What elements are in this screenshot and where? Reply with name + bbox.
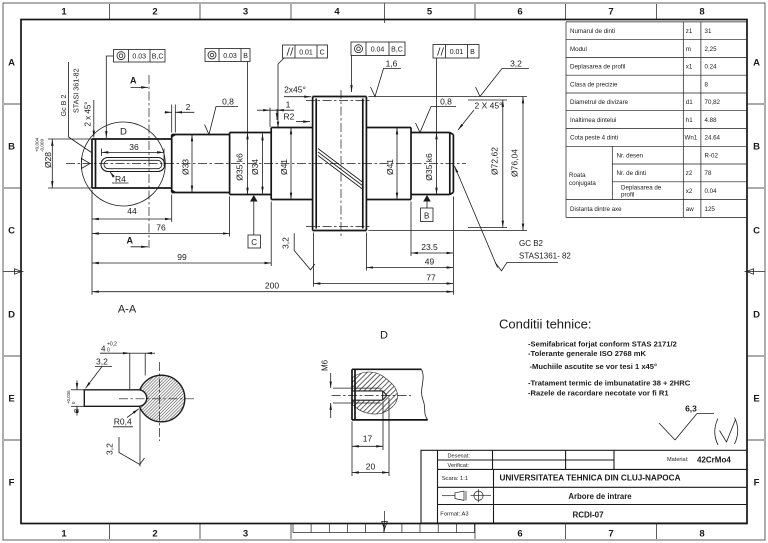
- svg-text:Ø28: Ø28: [43, 152, 53, 168]
- svg-text:A: A: [130, 76, 137, 86]
- FCF2 texts: [223, 53, 248, 60]
- seg o33 top: [172, 134, 230, 136]
- table row 4: Clasa de precizie 8: [570, 81, 709, 88]
- svg-text:Deplasarea de profil: Deplasarea de profil: [570, 64, 625, 71]
- chamfer 2X45 right leader: [458, 110, 474, 130]
- centering mark right: [745, 269, 765, 274]
- svg-text:1: 1: [61, 529, 67, 540]
- dim o33 line: [191, 135, 193, 193]
- svg-text:-Tratament termic de imbunatat: -Tratament termic de imbunatatire 38 + 2…: [528, 378, 691, 387]
- keyway slot inner: [104, 160, 162, 168]
- R4 underline hook: [112, 182, 129, 184]
- datum C triangle: [250, 195, 258, 202]
- svg-text:3: 3: [243, 529, 248, 540]
- FCF4 texts: [371, 46, 403, 53]
- svg-text:Conditii tehnice:: Conditii tehnice:: [499, 317, 592, 332]
- right end face: [452, 135, 454, 193]
- svg-text:0: 0: [107, 347, 110, 353]
- shoulder o33/o35k6: [229, 133, 231, 195]
- roughness 3,2 A-A top leader: [86, 367, 103, 389]
- keyway slot (white): [84, 390, 146, 407]
- dim o41 right text (rotated): [385, 159, 395, 175]
- helix direction marks: [318, 149, 363, 190]
- roughness 0,8 right: [416, 107, 457, 133]
- ext line x383 (17): [382, 402, 384, 451]
- svg-text:31: 31: [705, 28, 712, 35]
- svg-text:aw: aw: [686, 206, 694, 213]
- dim 2 line with facing arrows: [165, 111, 195, 113]
- dim o28 text: [43, 152, 53, 168]
- svg-text:2x45°: 2x45°: [284, 85, 306, 95]
- left end face: [91, 139, 93, 188]
- seg o41 right bottom: [366, 199, 411, 201]
- groove dim 1 mid segment: [270, 109, 277, 111]
- svg-text:D: D: [8, 310, 15, 321]
- svg-text:7: 7: [608, 529, 613, 540]
- svg-text:42CrMo4: 42CrMo4: [697, 456, 731, 465]
- ext line x313.5 for 77: [313, 233, 315, 287]
- svg-text:3,2: 3,2: [510, 59, 522, 69]
- svg-text:3,2: 3,2: [105, 443, 115, 455]
- svg-text:x2: x2: [686, 188, 693, 195]
- table row 9: Nr. de dinti z2 78: [617, 170, 712, 177]
- svg-text:B,C: B,C: [391, 46, 403, 53]
- table row 7: Cota peste 4 dinti Wn1 24.64: [570, 135, 721, 142]
- svg-text:99: 99: [177, 252, 187, 262]
- table merged cell: Roata conjugata: [569, 172, 596, 187]
- dim o35k6 left text (rotated): [235, 153, 245, 181]
- svg-text:Verificat:: Verificat:: [448, 463, 470, 469]
- A-A vertical centerline: [159, 362, 161, 441]
- centering mark left: [4, 269, 24, 274]
- dim o35k6 right line: [436, 133, 438, 195]
- keyway edge extension line down: [139, 408, 141, 467]
- svg-text:0.01: 0.01: [450, 49, 464, 56]
- general roughness 6,3 symbol: [659, 414, 714, 441]
- ext line x229.6 for 76: [229, 197, 231, 237]
- svg-text:-Tolerante generale ISO 2768 m: -Tolerante generale ISO 2768 mK: [528, 349, 647, 358]
- table row 2: Modul m 2,25: [570, 46, 717, 53]
- svg-text:125: 125: [705, 206, 716, 213]
- ext line x352 down: [351, 422, 353, 477]
- svg-text:M6: M6: [321, 359, 330, 371]
- svg-text:C: C: [251, 238, 257, 247]
- section plane A-A centerline: [148, 75, 150, 248]
- svg-text:A: A: [127, 236, 134, 246]
- svg-text:C: C: [753, 226, 760, 237]
- svg-text:6,3: 6,3: [685, 404, 697, 414]
- svg-text:8: 8: [699, 7, 704, 18]
- dim 17 line: [352, 445, 383, 447]
- dim 36 line: [102, 151, 165, 153]
- zone column numbers bottom: [61, 529, 704, 540]
- dim o28 tolerance text: [35, 137, 45, 152]
- roughness 3,2 near C (rotated): [281, 237, 291, 249]
- svg-text:RCDI-07: RCDI-07: [572, 511, 604, 520]
- keyway slot outer: [101, 158, 165, 172]
- svg-text:4.88: 4.88: [705, 117, 718, 124]
- svg-text:3: 3: [243, 7, 248, 18]
- GcB2 leader: [69, 62, 92, 153]
- dim o72.62 ext lines: [468, 100, 507, 228]
- svg-text:m: m: [686, 46, 691, 53]
- zone row letters left: [8, 58, 15, 489]
- roughness 3,2 A-A bottom symbol: [119, 437, 145, 465]
- svg-text:24.64: 24.64: [705, 135, 721, 142]
- svg-text:B: B: [8, 142, 15, 153]
- svg-text:3,2: 3,2: [96, 356, 108, 366]
- svg-text:Material:: Material:: [667, 457, 689, 463]
- shaft cross-section hatched circle: [138, 375, 185, 422]
- FCF1 texts: [132, 53, 163, 60]
- FCF4 leader: [351, 56, 353, 93]
- FCF1 symbol concentricity: [117, 52, 125, 60]
- dim 23.5 line: [411, 252, 453, 254]
- FCF5 texts: [450, 49, 475, 56]
- M6 ext lines: [333, 388, 352, 403]
- chamfer text 2x45 left (rotated): [84, 102, 93, 127]
- svg-text:C: C: [8, 226, 15, 237]
- svg-text:0.04: 0.04: [705, 188, 718, 195]
- FCF4 symbol concentricity: [355, 45, 363, 53]
- right end chamfer line: [449, 133, 451, 195]
- centering mark bottom: [382, 511, 388, 532]
- svg-text:8: 8: [705, 81, 709, 88]
- svg-text:GC B2: GC B2: [519, 239, 544, 248]
- svg-text:z1: z1: [686, 28, 693, 35]
- svg-text:200: 200: [265, 281, 279, 291]
- svg-text:Modul: Modul: [570, 46, 587, 53]
- dim o28 extension lines: [48, 139, 92, 188]
- svg-text:E: E: [753, 394, 759, 405]
- chamfer leader 2x45 left: [93, 100, 95, 138]
- leader R4: [110, 172, 114, 177]
- left end chamfer line: [95, 139, 97, 188]
- FCF2 frame: [205, 49, 250, 62]
- seg o41 right top: [366, 127, 411, 129]
- dim o72.62 text (rotated): [490, 147, 500, 175]
- ext line x389 (20): [388, 398, 390, 476]
- FCF2 leader: [247, 62, 249, 133]
- svg-text:B: B: [753, 142, 760, 153]
- gear mid centerline: [340, 90, 342, 238]
- R0,4 underline: [113, 426, 133, 428]
- dim 76 line: [92, 233, 230, 235]
- dim o35k6 right text (rotated): [424, 153, 434, 181]
- svg-text:-Muchiile ascutite se vor tesi: -Muchiile ascutite se vor tesi 1 x45°: [530, 362, 658, 371]
- FCF3 symbol parallelism: [287, 48, 293, 56]
- svg-text:77: 77: [426, 273, 436, 283]
- svg-text:8: 8: [699, 529, 704, 540]
- section arrow A bottom: [131, 246, 149, 248]
- svg-text:0.04: 0.04: [371, 46, 385, 53]
- svg-text:17: 17: [363, 433, 373, 443]
- dim o76.04 line: [522, 97, 524, 231]
- svg-text:-0,009: -0,009: [40, 139, 45, 152]
- datum C box: [248, 235, 261, 248]
- svg-text:STASI 361-82: STASI 361-82: [72, 68, 81, 113]
- dim o76.04 ext lines: [368, 97, 527, 231]
- ext line x411 for 23.5: [410, 202, 412, 257]
- detail circle D: [81, 122, 165, 206]
- dim 44 line: [92, 218, 172, 220]
- FCF3 frame: [283, 45, 328, 58]
- svg-text:0.03: 0.03: [132, 53, 146, 60]
- svg-text:Inaltimea dintelui: Inaltimea dintelui: [570, 117, 616, 124]
- svg-text:Ø72,62: Ø72,62: [490, 147, 500, 175]
- svg-text:6: 6: [517, 7, 522, 18]
- parenthesized roughness symbol: [715, 418, 738, 446]
- svg-text:6: 6: [517, 529, 522, 540]
- seg o35k6 right bottom: [411, 194, 450, 196]
- svg-text:Nr. de dinti: Nr. de dinti: [617, 170, 647, 177]
- gear right face: [365, 97, 367, 231]
- svg-text:78: 78: [705, 170, 712, 177]
- roughness 3,2 right: [476, 69, 530, 97]
- gear top: [313, 96, 367, 98]
- svg-text:2: 2: [152, 529, 157, 540]
- svg-text:B: B: [243, 53, 248, 60]
- gear left face: [312, 97, 314, 231]
- svg-text:1,6: 1,6: [386, 59, 398, 69]
- groove dim 1 ext lines: [270, 108, 277, 128]
- svg-text:70,82: 70,82: [705, 99, 721, 106]
- table row 3: Deplasarea de profil x1 0.24: [570, 64, 717, 71]
- break line wavy: [421, 369, 427, 420]
- roughness 3,2 A-A bottom text (rotated): [105, 443, 115, 455]
- table row 11: Distanta dintre axe aw 125: [570, 206, 715, 213]
- dim o35k6 left line: [247, 133, 249, 195]
- svg-text:2: 2: [152, 7, 157, 18]
- gear bottom: [313, 230, 367, 232]
- gear left chamfer line: [315, 99, 317, 229]
- svg-text:Ø35 k6: Ø35 k6: [235, 153, 245, 181]
- svg-text:44: 44: [127, 206, 137, 216]
- FCF5 symbol parallelism: [438, 48, 444, 56]
- title block frame: [421, 450, 747, 523]
- dim 2 ext lines: [172, 105, 176, 133]
- o33 chamfer bottom: [172, 190, 176, 192]
- dim o34 text (rotated): [250, 159, 260, 175]
- svg-text:Roata: Roata: [569, 172, 586, 179]
- zone ticks right: [747, 104, 764, 440]
- roughness 3,2 near C symbol: [294, 233, 315, 269]
- svg-text:4: 4: [101, 344, 106, 353]
- svg-text:Ø76,04: Ø76,04: [510, 149, 520, 177]
- dim 99 line: [92, 262, 271, 264]
- svg-text:0.01: 0.01: [299, 49, 313, 56]
- svg-text:Ø41: Ø41: [385, 159, 395, 175]
- right end chamfer bottom: [450, 192, 454, 194]
- svg-text:Cota peste 4 dinti: Cota peste 4 dinti: [570, 135, 618, 142]
- M6 dim arrows: [330, 373, 332, 418]
- svg-text:Ø34: Ø34: [250, 159, 260, 175]
- M6 hole walls: [352, 391, 383, 400]
- svg-text:R-02: R-02: [705, 152, 719, 159]
- dim 4+0.2 line: [100, 352, 155, 354]
- dim o28 line: [51, 139, 53, 188]
- svg-text:2,25: 2,25: [705, 46, 718, 53]
- groove dim 1 line with facing arrows: [257, 109, 294, 111]
- roughness 3,2 A-A top bar: [95, 366, 112, 368]
- FCF2 symbol concentricity: [208, 51, 216, 59]
- svg-text:UNIVERSITATEA TEHNICA DIN CLUJ: UNIVERSITATEA TEHNICA DIN CLUJ-NAPOCA: [499, 474, 680, 483]
- technical conditions list: [528, 339, 691, 397]
- svg-text:z2: z2: [686, 170, 693, 177]
- svg-text:R4: R4: [115, 174, 126, 184]
- shoulder o34/o41: [270, 128, 272, 200]
- gear right chamfer line: [362, 99, 364, 229]
- dim 20 line: [352, 472, 389, 474]
- table row 6: Inaltimea dintelui h1 4.88: [570, 117, 717, 124]
- FCF4 frame: [351, 42, 405, 56]
- R2 leader: [296, 121, 310, 123]
- svg-text:8: 8: [72, 409, 81, 413]
- svg-text:A: A: [753, 58, 760, 69]
- svg-text:D: D: [753, 310, 760, 321]
- seg o35k6-o34 bottom: [230, 194, 272, 196]
- white hole interior: [352, 391, 387, 400]
- zone ticks left: [4, 104, 21, 440]
- dim o41 right line: [396, 128, 398, 200]
- svg-text:1: 1: [286, 100, 291, 110]
- comparison scale strip: [293, 524, 475, 533]
- table row 1: Numarul de dinti z1 31: [570, 28, 712, 35]
- svg-text:R0,4: R0,4: [114, 416, 132, 426]
- svg-text:STAS1361- 82: STAS1361- 82: [519, 252, 571, 261]
- svg-text:C: C: [320, 49, 325, 56]
- shaft outline: [92, 97, 453, 231]
- dim o33 text (rotated): [181, 159, 191, 175]
- svg-text:R2: R2: [284, 112, 295, 122]
- FCF5 leader: [436, 58, 438, 133]
- drill cone: [383, 391, 387, 400]
- svg-text:Ø41: Ø41: [279, 159, 289, 175]
- title block: Material 42CrMo4: [667, 456, 731, 465]
- FCF1 frame: [114, 50, 166, 63]
- local section hatch blob: [353, 372, 398, 414]
- M6 text (rotated): [321, 359, 330, 371]
- o33 chamfer top: [172, 135, 176, 137]
- svg-text:D: D: [380, 330, 388, 342]
- zone row letters right: [753, 58, 760, 489]
- ext line x171.7 for 44: [171, 195, 173, 223]
- svg-text:B: B: [424, 212, 429, 221]
- zone ticks bottom: [110, 524, 657, 540]
- FCF1 leader: [106, 56, 113, 138]
- table row 10: Deplasarea de profil x2 0.04: [621, 184, 717, 198]
- title block: Desenat / Verificat labels: [448, 454, 471, 470]
- dim 36 ext lines: [102, 149, 165, 167]
- seg o41 left top: [271, 127, 312, 129]
- dim 8 text (rotated): [72, 409, 81, 413]
- shoulder o28/o33: [171, 135, 173, 193]
- svg-text:3,2: 3,2: [281, 237, 291, 249]
- datum B stem: [426, 202, 428, 209]
- datum C stem: [253, 202, 255, 236]
- dim o41 left line: [290, 128, 292, 200]
- zone column numbers top: [61, 7, 704, 18]
- svg-text:Deplasarea de: Deplasarea de: [621, 184, 662, 191]
- svg-text:A: A: [8, 58, 15, 69]
- dim 8 tolerance (rotated): [66, 390, 76, 404]
- dim o34 line: [262, 134, 264, 194]
- detail D outline: [352, 369, 428, 420]
- svg-text:0.24: 0.24: [705, 64, 718, 71]
- svg-text:2 X 45°: 2 X 45°: [475, 101, 503, 111]
- table row 8: Nr. desen R-02: [617, 152, 719, 159]
- GC B2 bottom symbol: [495, 262, 558, 270]
- ext line left end bottom (shared 44/76/99/200): [91, 190, 93, 295]
- svg-text:Clasa de precizie: Clasa de precizie: [570, 81, 618, 88]
- detail D centerline: [332, 395, 411, 397]
- svg-text:0,8: 0,8: [440, 97, 452, 107]
- STAS1361-82 text (rotated): [72, 68, 81, 113]
- gear data table: [566, 22, 747, 218]
- svg-text:49: 49: [425, 257, 435, 267]
- gear pitch line top: [306, 100, 372, 102]
- FCF3 leader: [278, 58, 284, 129]
- seg o33 bottom: [172, 192, 230, 194]
- dim 77 line: [314, 283, 454, 285]
- first-angle projection symbol: [442, 489, 491, 502]
- svg-text:-Semifabricat forjat conform: -Semifabricat forjat conform STAS 2171/2: [528, 339, 677, 348]
- seg o28 bottom: [92, 187, 172, 189]
- svg-text:B: B: [470, 49, 475, 56]
- svg-text:conjugata: conjugata: [569, 180, 596, 187]
- svg-text:profil: profil: [621, 192, 634, 199]
- roughness 0,8 left: [205, 107, 239, 135]
- svg-text:4: 4: [334, 7, 340, 18]
- svg-text:Ø35 k6: Ø35 k6: [424, 153, 434, 181]
- gear pitch line bottom: [306, 226, 372, 228]
- svg-text:2: 2: [186, 102, 191, 112]
- dim o41 left text (rotated): [279, 159, 289, 175]
- svg-text:A-A: A-A: [118, 304, 137, 316]
- section arrow A top: [131, 86, 149, 88]
- svg-text:0,8: 0,8: [222, 97, 234, 107]
- R0,4 leader: [127, 409, 139, 418]
- svg-text:E: E: [8, 394, 14, 405]
- ext line x271.2 for 99: [270, 202, 272, 267]
- dim 200 line: [92, 291, 453, 293]
- svg-text:2 x 45°: 2 x 45°: [84, 102, 93, 127]
- A-A horizontal centerline: [119, 398, 197, 400]
- seg o41 left bottom: [271, 199, 312, 201]
- svg-text:36: 36: [129, 142, 139, 152]
- svg-text:d1: d1: [686, 99, 693, 106]
- svg-text:Arbore de intrare: Arbore de intrare: [568, 492, 632, 501]
- main axis centerline: [66, 163, 466, 165]
- svg-text:Ø33: Ø33: [181, 159, 191, 175]
- table row 5: Diametrul de divizare d1 70,82: [570, 99, 721, 106]
- svg-text:76: 76: [156, 223, 166, 233]
- right end chamfer top: [450, 133, 454, 135]
- svg-text:Nr. desen: Nr. desen: [617, 152, 644, 159]
- shoulder o41/o35k6 right: [410, 128, 412, 200]
- center drill cone left: [81, 159, 90, 169]
- ext line right end for 200: [452, 197, 454, 295]
- M6 thread outer lines: [352, 388, 381, 403]
- svg-text:20: 20: [366, 462, 376, 472]
- svg-text:x1: x1: [686, 64, 693, 71]
- svg-text:Numarul de dinti: Numarul de dinti: [570, 28, 615, 35]
- GC B2 bottom leader: [455, 166, 498, 268]
- dim 49 line: [366, 267, 453, 269]
- svg-text:Gc B 2: Gc B 2: [59, 95, 68, 117]
- svg-text:B,C: B,C: [152, 53, 164, 60]
- seg o35k6 right top: [411, 132, 450, 134]
